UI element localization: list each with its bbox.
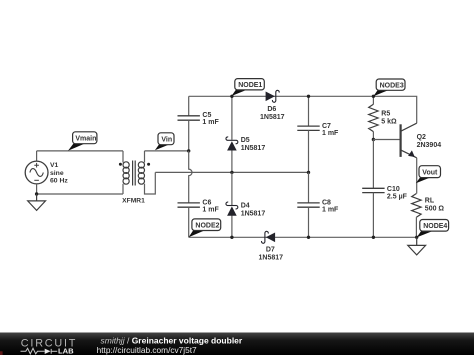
phase dot primary: [119, 163, 122, 166]
junction R5/C10/Q2 base: [372, 138, 375, 141]
wire C8 top lead: [308, 172, 310, 203]
wire V1 bottom lead: [36, 184, 38, 194]
svg-text:1N5817: 1N5817: [259, 255, 284, 262]
wire Vmain net (V1 to XFMR1 primary top): [37, 150, 123, 152]
wire base node to Q2 base: [373, 139, 399, 141]
node label NODE2: [189, 219, 221, 237]
svg-text:1N5817: 1N5817: [241, 145, 266, 152]
base bar: [400, 124, 402, 157]
svg-text:2.5 µF: 2.5 µF: [387, 193, 408, 200]
label D5: [241, 137, 266, 152]
svg-text:http://circuitlab.com/cv7j5t7: http://circuitlab.com/cv7j5t7: [97, 345, 197, 355]
svg-text:1 mF: 1 mF: [322, 130, 339, 137]
wire RL bottom lead: [415, 217, 417, 237]
svg-text:D4: D4: [241, 203, 250, 210]
node label NODE3: [373, 79, 405, 96]
ground (NODE4): [408, 237, 426, 255]
svg-text:Q2: Q2: [417, 134, 426, 141]
label D7: [259, 247, 284, 262]
wire C5 top lead: [188, 96, 190, 116]
phase dot secondary: [147, 163, 150, 166]
diode D5: [226, 96, 238, 172]
wire bottom bus NODE2/NODE4: [189, 236, 417, 238]
svg-text:R5: R5: [381, 111, 390, 118]
wire middle bus (secondary bottom to C7/C8 node): [155, 171, 308, 173]
svg-text:C10: C10: [387, 186, 400, 193]
svg-text:1 mF: 1 mF: [202, 207, 219, 214]
junction D5 anode / middle bus: [230, 171, 233, 174]
svg-text:NODE1: NODE1: [238, 82, 262, 89]
wire Vin junction down with hop over middle bus: [189, 151, 192, 203]
wire C7 top lead: [308, 96, 310, 126]
svg-text:D5: D5: [241, 137, 250, 144]
junction C8 / bottom bus: [307, 236, 310, 239]
wire R5 top lead: [372, 96, 374, 104]
voltage source V1: [25, 161, 48, 184]
svg-text:2N3904: 2N3904: [417, 142, 442, 149]
capacitor C8: [297, 203, 319, 207]
footer bar: [0, 333, 474, 355]
junction C7 / top bus: [307, 95, 310, 98]
wire XFMR1 secondary bottom lead: [145, 172, 156, 194]
wire V1 top lead: [36, 151, 38, 161]
capacitor C5: [178, 116, 200, 120]
svg-text:C8: C8: [322, 199, 331, 206]
diode D4: [226, 172, 238, 237]
svg-text:C5: C5: [202, 112, 211, 119]
node label NODE1: [232, 79, 265, 96]
wire top bus NODE1/NODE3: [189, 96, 417, 123]
svg-text:V1: V1: [50, 162, 59, 169]
svg-text:5 kΩ: 5 kΩ: [381, 119, 397, 126]
svg-text:Vmain: Vmain: [75, 136, 96, 143]
wire C10 bottom lead: [372, 193, 374, 238]
junction C10 / bottom bus: [372, 236, 375, 239]
wire C7 bottom to middle bus: [308, 130, 310, 172]
svg-text:Vout: Vout: [422, 170, 438, 177]
svg-text:1 mF: 1 mF: [322, 207, 339, 214]
wire XFMR1 primary bottom lead: [122, 184, 124, 194]
svg-text:RL: RL: [425, 198, 435, 205]
transformer XFMR1: [119, 161, 150, 186]
diode D6: [266, 90, 280, 102]
svg-text:XFMR1: XFMR1: [122, 197, 145, 204]
wire C5 bottom to Vin junction: [188, 120, 190, 151]
node label Vout: [416, 166, 441, 184]
label C5: [202, 112, 219, 126]
label C6: [202, 199, 219, 213]
wire C6 bottom lead to NODE2: [188, 207, 190, 237]
capacitor C6: [178, 203, 200, 207]
wire V1 to XFMR1 primary bottom: [37, 193, 123, 195]
junction middle bus / C7 / C8: [307, 171, 310, 174]
wire XFMR1 primary top lead: [122, 151, 124, 163]
wire Q2 emitter to RL: [416, 158, 418, 194]
capacitor C10: [362, 188, 384, 192]
diode D7: [262, 231, 276, 243]
label RL: [425, 198, 445, 213]
node label Vmain: [68, 132, 97, 151]
junction NODE4 / ground: [415, 236, 418, 239]
ground (V1): [28, 194, 46, 210]
resistor R5: [369, 104, 378, 131]
svg-text:NODE2: NODE2: [195, 223, 219, 230]
svg-text:sine: sine: [50, 170, 64, 177]
wire R5 bottom lead to base node: [372, 132, 374, 140]
svg-text:1N5817: 1N5817: [241, 211, 266, 218]
svg-text:60 Hz: 60 Hz: [50, 177, 68, 184]
label D6: [260, 106, 285, 121]
svg-text:1 mF: 1 mF: [202, 119, 219, 126]
svg-text:C7: C7: [322, 123, 331, 130]
node label NODE4: [417, 220, 449, 238]
wire Vin net (secondary top to C5 branch): [145, 150, 189, 152]
label R5: [381, 111, 397, 126]
label D4: [241, 203, 266, 218]
secondary winding: [138, 162, 144, 184]
label Q2: [417, 134, 442, 149]
wire C8 bottom lead: [308, 207, 310, 237]
label C8: [322, 199, 339, 213]
label C7: [322, 123, 339, 137]
emitter arrow: [408, 150, 415, 157]
transistor Q2: [401, 123, 417, 158]
junction D4 anode / bottom bus: [230, 236, 233, 239]
junction NODE3: [372, 95, 375, 98]
node label Vin: [155, 133, 174, 150]
FOOTER: [0, 333, 474, 355]
svg-text:NODE3: NODE3: [380, 83, 404, 90]
resistor RL: [412, 194, 421, 218]
junction NODE1: [230, 95, 233, 98]
emitter: [401, 150, 417, 158]
svg-text:NODE4: NODE4: [423, 223, 447, 230]
svg-text:C6: C6: [202, 199, 211, 206]
label V1 value: [50, 162, 68, 184]
svg-text:1N5817: 1N5817: [260, 114, 285, 121]
svg-text:500 Ω: 500 Ω: [425, 205, 445, 212]
core: [133, 161, 136, 186]
logo diode triangle: [45, 349, 51, 354]
primary winding: [123, 162, 129, 184]
collector: [401, 123, 417, 131]
wire XFMR1 secondary top lead: [144, 151, 146, 163]
svg-text:D6: D6: [267, 106, 276, 113]
svg-text:LAB: LAB: [58, 346, 74, 355]
label C10: [387, 186, 408, 201]
capacitor C7: [297, 126, 319, 130]
junction V1/ground: [35, 192, 38, 195]
wire C10 top lead: [372, 140, 374, 189]
svg-text:D7: D7: [266, 247, 275, 254]
svg-text:Vin: Vin: [161, 137, 172, 144]
junction Vin/C5/C6: [187, 149, 190, 152]
logo trace: wire resistor diode wire: [21, 348, 58, 354]
footer red corner mark: [0, 351, 3, 355]
